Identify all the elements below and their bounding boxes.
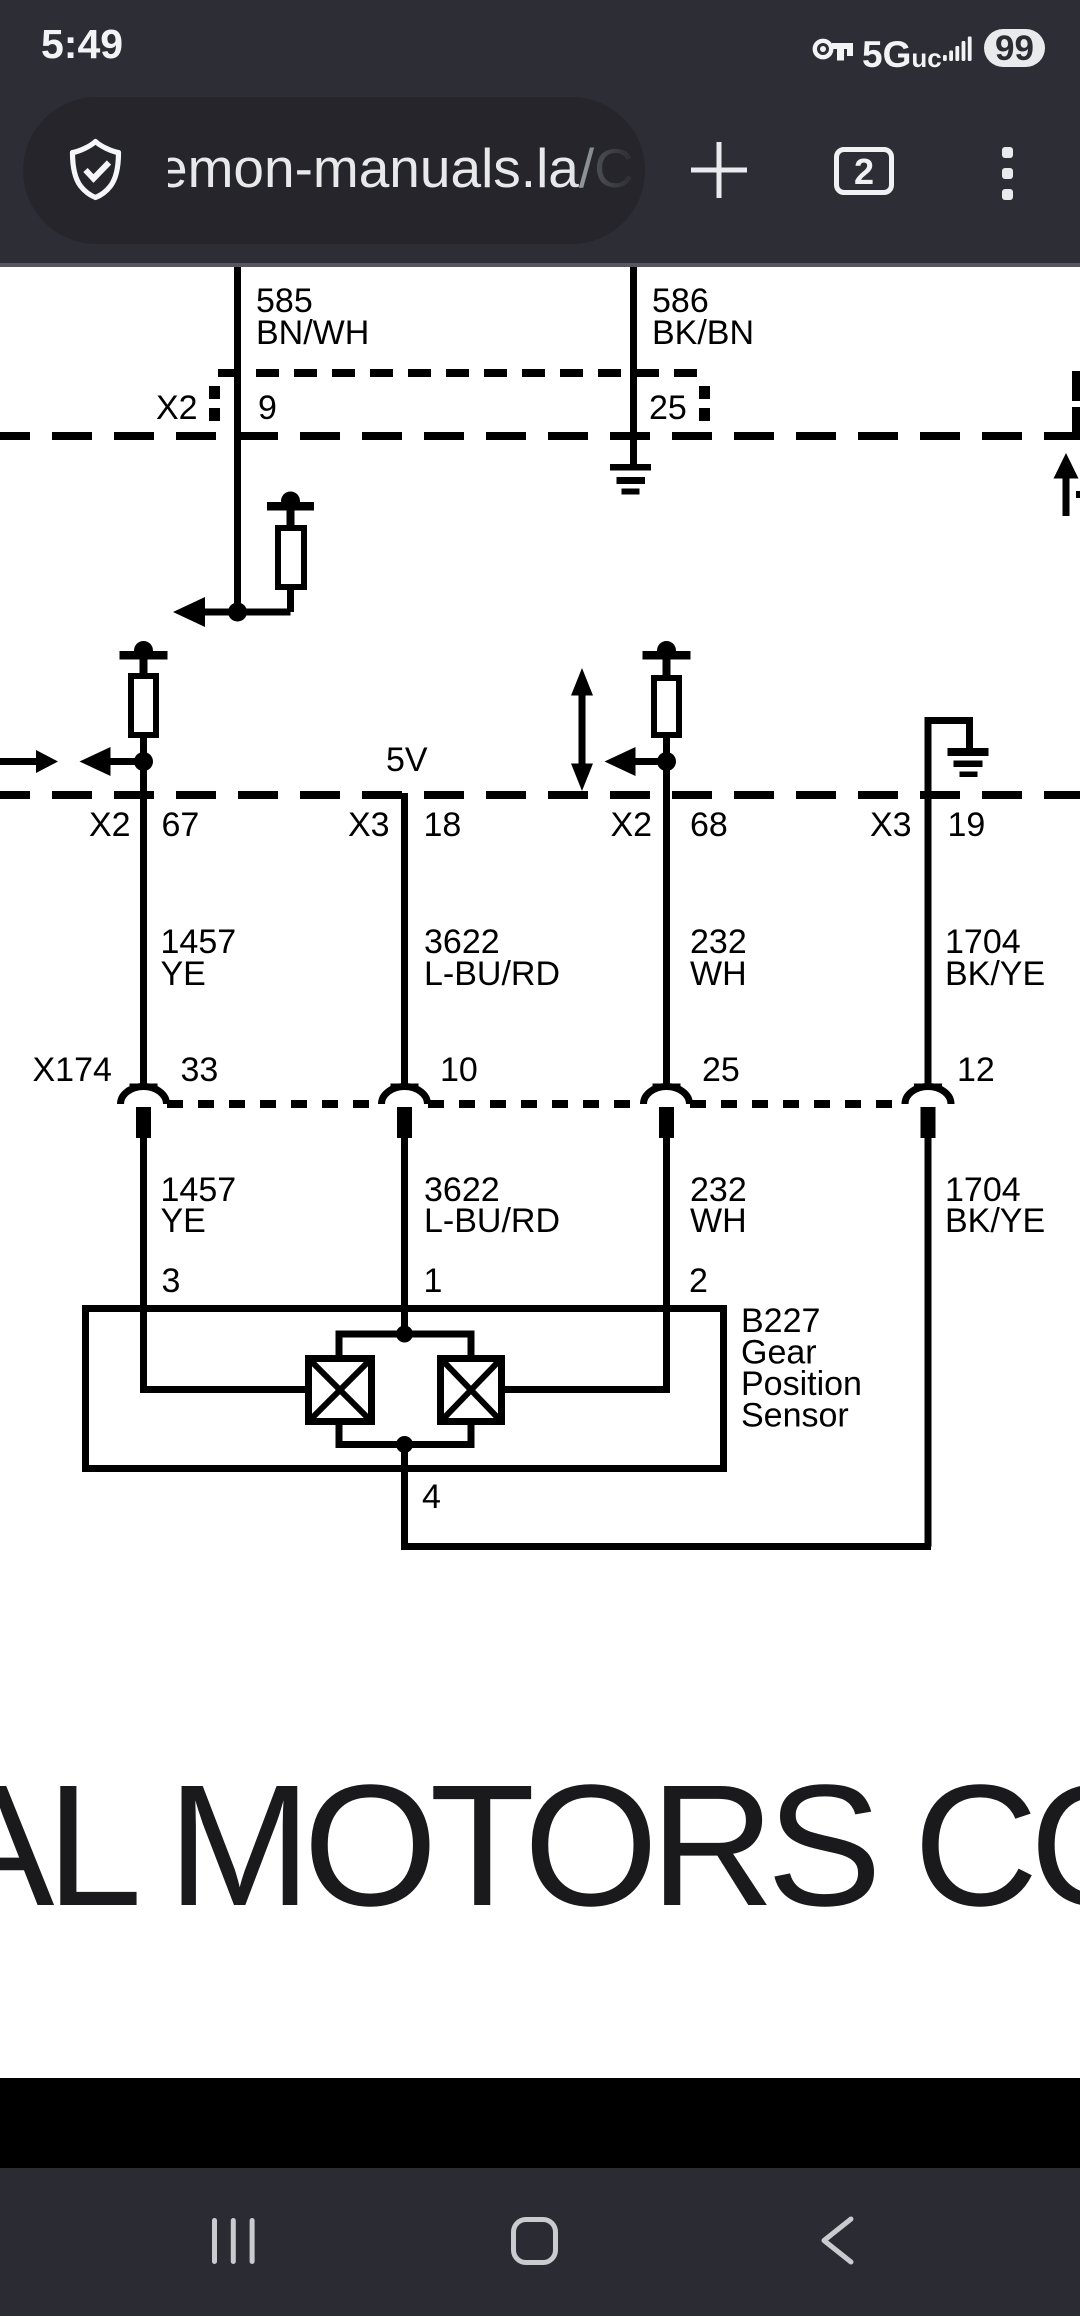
- connector X174 dotted line: [167, 1100, 905, 1108]
- svg-text:X2: X2: [611, 806, 653, 844]
- label circuit 1704 BK/YE (upper): [945, 923, 1045, 993]
- headline "GENERAL MOTORS CO..." partially visible: [0, 1745, 1080, 1945]
- svg-text:L-BU/RD: L-BU/RD: [424, 1202, 560, 1240]
- junction dot A: [228, 603, 247, 622]
- label circuit 586 BK/BN: [652, 282, 754, 352]
- sensor pin 4 wire: [405, 1445, 932, 1547]
- wire 3622 L-BU/RD upper segment: [401, 793, 408, 1087]
- svg-text:BN/WH: BN/WH: [256, 314, 369, 352]
- clock: [41, 21, 123, 68]
- ground symbol under wire 586: [610, 464, 651, 495]
- junction dot pin1 node: [396, 1326, 413, 1343]
- off-page arrow from left edge: [0, 750, 58, 773]
- label circuit 3622 L-BU/RD (upper): [424, 923, 560, 993]
- key icon: [810, 32, 856, 66]
- svg-text:2: 2: [689, 1262, 708, 1300]
- label X2 pin 68: [611, 806, 728, 844]
- svg-text:25: 25: [702, 1051, 740, 1089]
- label circuit 232 WH (lower): [690, 1171, 747, 1240]
- svg-text:WH: WH: [690, 1202, 747, 1240]
- inductive coil L1 (crossed box): [309, 1359, 372, 1422]
- URL pill: [23, 97, 645, 244]
- svg-text:X2: X2: [89, 806, 131, 844]
- connector X174 hump pin 25: [644, 1084, 690, 1105]
- svg-text:WH: WH: [690, 955, 747, 993]
- right fade: [568, 97, 668, 244]
- label X2 pin 67: [89, 806, 199, 844]
- bidirectional signal arrow: [571, 668, 593, 791]
- off-page arrow left (585): [173, 597, 205, 627]
- X174 terminal pin 33: [136, 1107, 151, 1138]
- resistor R3 supply bar: [643, 651, 691, 660]
- X174 terminal pin 10: [397, 1107, 412, 1138]
- label circuit 3622 L-BU/RD (lower): [424, 1171, 560, 1240]
- kebab menu: [1002, 147, 1013, 158]
- cut-off symbol at right edge: [1076, 491, 1080, 498]
- wire R3 to junction: [663, 735, 670, 795]
- sensor inner bottom bar: [339, 1422, 471, 1445]
- svg-text:X3: X3: [870, 806, 912, 844]
- off-page dotted edge right: [1072, 371, 1080, 440]
- wire 586 vertical: [630, 267, 637, 467]
- label X3 pin 18: [348, 806, 461, 844]
- connector X2 dotted band right edge: [699, 386, 710, 427]
- battery pill with 99: [984, 29, 1045, 67]
- svg-text:L-BU/RD: L-BU/RD: [424, 955, 560, 993]
- junction dot B: [134, 752, 153, 771]
- internal ground hook wire: [928, 721, 970, 796]
- off-page up arrow right edge: [1054, 453, 1079, 516]
- wire R1 bottom: [287, 590, 294, 612]
- inductive coil L2 (crossed box): [441, 1359, 502, 1422]
- wire 3622 L-BU/RD lower segment: [401, 1138, 408, 1334]
- tab counter: [834, 147, 894, 195]
- wire junction 585 horizontal: [203, 609, 291, 616]
- svg-text:X3: X3: [348, 806, 390, 844]
- svg-text:BK/BN: BK/BN: [652, 314, 754, 352]
- home icon: [511, 2217, 558, 2265]
- resistor R2 supply dot: [134, 641, 153, 660]
- ECM module dashed boundary (bottom): [0, 791, 1080, 799]
- sensor wire from pin 3: [144, 1306, 309, 1390]
- svg-text:YE: YE: [161, 1202, 206, 1240]
- ECM module dashed boundary (top): [0, 432, 1080, 440]
- resistor R2 supply bar: [120, 651, 168, 660]
- arrow into junction C: [605, 747, 667, 776]
- resistor R1 supply dot: [281, 492, 300, 511]
- connector X2 dotted band top line: [218, 369, 709, 377]
- svg-text:68: 68: [690, 806, 728, 844]
- label circuit 232 WH (upper): [690, 923, 747, 993]
- resistor R2 body: [131, 676, 156, 735]
- junction dot C: [657, 752, 676, 771]
- wire R2 to junction: [140, 735, 147, 795]
- svg-text:4: 4: [422, 1478, 441, 1516]
- wire 232 WH upper segment: [663, 762, 670, 1088]
- wire 1704 BK/YE upper segment: [925, 795, 932, 1087]
- internal ground symbol: [948, 748, 989, 777]
- connector X174 hump pin 10: [382, 1084, 428, 1105]
- resistor R3 body: [654, 678, 679, 735]
- arrow into junction B: [80, 747, 144, 776]
- svg-text:5V: 5V: [386, 741, 428, 779]
- wire 585 vertical: [234, 267, 241, 612]
- svg-text:67: 67: [162, 806, 200, 844]
- shield icon: [68, 138, 132, 204]
- wire 1704 BK/YE lower segment: [925, 1138, 932, 1547]
- svg-text:X2: X2: [156, 389, 198, 427]
- 5Guc: [862, 34, 942, 76]
- svg-text:12: 12: [957, 1051, 995, 1089]
- svg-text:10: 10: [440, 1051, 478, 1089]
- svg-text:18: 18: [424, 806, 462, 844]
- sensor inner top bar: [339, 1334, 471, 1358]
- svg-text:Sensor: Sensor: [741, 1397, 849, 1435]
- resistor R3 stem: [663, 659, 671, 675]
- signal bars: [943, 34, 975, 62]
- svg-text:19: 19: [948, 806, 986, 844]
- svg-text:33: 33: [181, 1051, 219, 1089]
- sensor wire from pin 2: [502, 1306, 667, 1390]
- resistor R1 body: [278, 528, 304, 587]
- svg-text:BK/YE: BK/YE: [945, 1202, 1045, 1240]
- label circuit 585 BN/WH: [256, 282, 369, 352]
- plus icon: [689, 140, 749, 200]
- wire 232 WH lower segment: [663, 1138, 670, 1310]
- connector X174 hump pin 33: [121, 1084, 167, 1105]
- X174 terminal pin 25: [659, 1107, 674, 1138]
- svg-text:25: 25: [649, 389, 687, 427]
- svg-text:X174: X174: [33, 1051, 112, 1089]
- label circuit 1704 BK/YE (lower): [945, 1171, 1045, 1240]
- back icon: [815, 2212, 860, 2268]
- resistor R2 stem: [140, 659, 148, 675]
- recents icon: [205, 2215, 261, 2267]
- connector X174 hump pin 12: [905, 1084, 951, 1105]
- svg-text:9: 9: [258, 389, 277, 427]
- url text: [157, 136, 677, 200]
- svg-text:YE: YE: [161, 955, 206, 993]
- black band: [0, 2078, 1080, 2168]
- label circuit 1457 YE (lower): [161, 1171, 237, 1240]
- wire 1457 YE upper segment: [140, 762, 147, 1088]
- resistor R1 stem: [287, 510, 295, 526]
- svg-text:BK/YE: BK/YE: [945, 955, 1045, 993]
- resistor R3 supply dot: [657, 641, 676, 660]
- svg-text:3: 3: [162, 1262, 181, 1300]
- junction dot pin4 node: [396, 1436, 413, 1453]
- sensor B227 box: [86, 1309, 724, 1469]
- label B227 Gear Position Sensor: [741, 1302, 862, 1435]
- svg-text:1: 1: [424, 1262, 443, 1300]
- wire 1457 YE lower segment: [140, 1138, 147, 1310]
- X174 terminal pin 12: [921, 1107, 936, 1138]
- label X3 pin 19: [870, 806, 985, 844]
- sensor wire from pin 1: [401, 1330, 408, 1338]
- label circuit 1457 YE (upper): [161, 923, 237, 993]
- toolbar bottom separator: [0, 263, 1080, 267]
- resistor R1 supply bar: [267, 502, 314, 511]
- connector X2 dotted band left edge: [209, 386, 220, 423]
